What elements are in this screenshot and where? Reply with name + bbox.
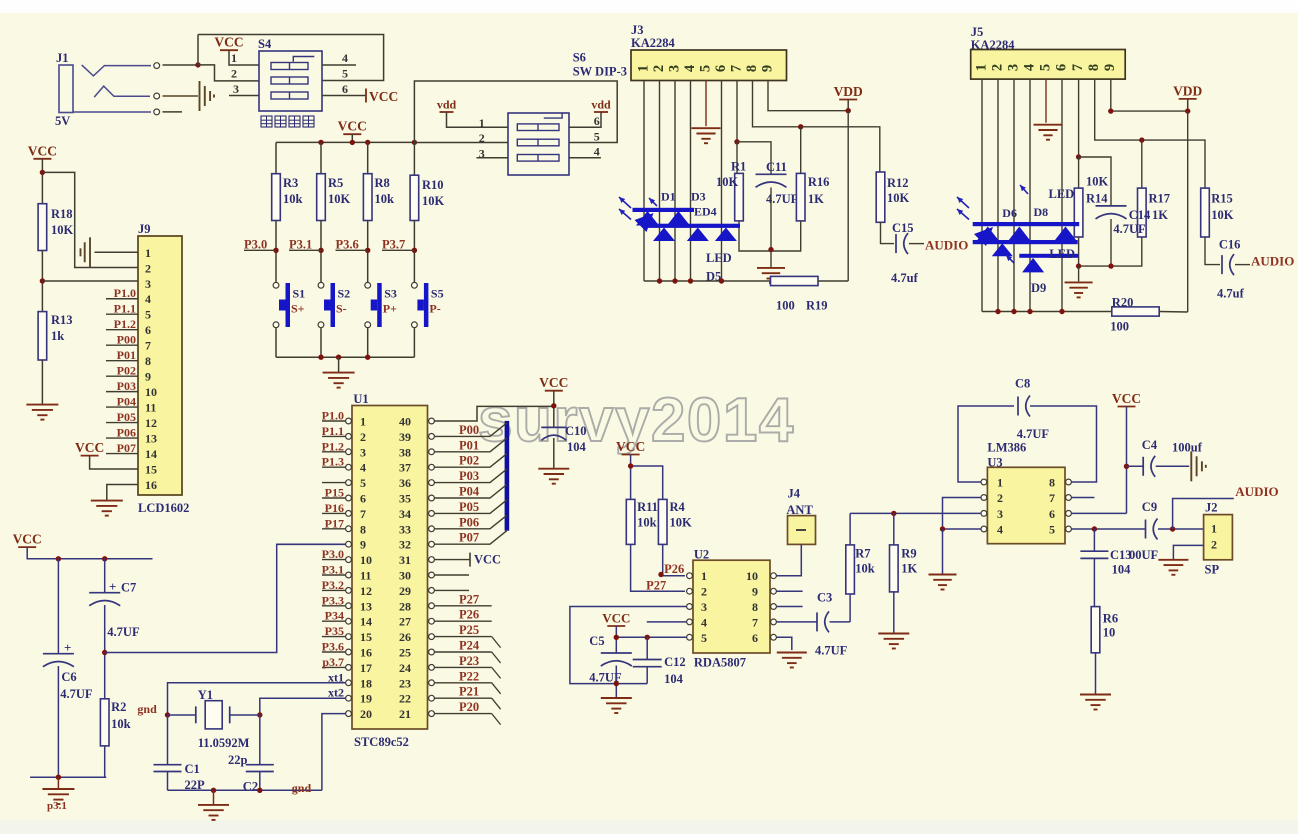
node lbus1 bbox=[657, 278, 662, 283]
svg-text:8: 8 bbox=[744, 65, 760, 72]
svg-text:1: 1 bbox=[635, 65, 651, 72]
connector J2 label bbox=[1205, 501, 1218, 515]
svg-text:P1.2: P1.2 bbox=[322, 439, 344, 453]
wire S4 pin6 to VCC bbox=[322, 95, 366, 97]
connector J2 body bbox=[1204, 515, 1233, 560]
wire buttons ground bus bbox=[276, 356, 414, 358]
node pin8 junction bbox=[798, 124, 803, 129]
wire S6 pin3 bbox=[477, 157, 509, 159]
node P26 bbox=[658, 572, 663, 577]
svg-text:10K: 10K bbox=[1211, 208, 1234, 222]
svg-text:100: 100 bbox=[776, 299, 795, 313]
wire U1 pin20 to gnd net bbox=[322, 714, 346, 791]
node J5 R17 junction bbox=[1139, 137, 1144, 142]
S4 pin6 number bbox=[342, 82, 348, 96]
node pin2 pin4 bbox=[940, 526, 945, 531]
svg-text:VCC: VCC bbox=[75, 440, 104, 455]
C3 label bbox=[815, 591, 848, 658]
wire U2 pin4 stub bbox=[647, 621, 687, 623]
diode row2 a bbox=[653, 228, 675, 242]
capacitor C13 bbox=[1080, 551, 1108, 558]
net label P3.1 bbox=[289, 238, 321, 252]
svg-text:P00: P00 bbox=[117, 333, 136, 347]
svg-text:J5: J5 bbox=[971, 25, 984, 39]
ground below C11 bbox=[757, 268, 785, 283]
ground J5 pin5 bbox=[1034, 125, 1063, 140]
svg-text:P26: P26 bbox=[664, 562, 684, 576]
svg-text:4: 4 bbox=[594, 145, 600, 159]
wire xtal gnd stem bbox=[213, 790, 215, 804]
node bus VCC bbox=[350, 140, 355, 145]
svg-text:VCC: VCC bbox=[338, 119, 367, 134]
capacitor C14 bbox=[1096, 206, 1127, 219]
node C13 top bbox=[1092, 526, 1097, 531]
svg-text:39: 39 bbox=[399, 430, 411, 444]
node bus R5 bbox=[318, 140, 323, 145]
svg-text:S4: S4 bbox=[258, 37, 272, 51]
wire S6 pin2 bbox=[414, 142, 508, 144]
resistor R14 bbox=[1074, 188, 1083, 237]
svg-text:10k: 10k bbox=[283, 192, 303, 206]
capacitor C6 bbox=[43, 654, 74, 667]
S6 bar2 bbox=[517, 139, 559, 146]
wire C6 drop bbox=[57, 559, 59, 654]
svg-text:15: 15 bbox=[145, 463, 157, 477]
wire R16 top bbox=[800, 127, 802, 174]
svg-text:P23: P23 bbox=[459, 654, 479, 668]
C15 label bbox=[891, 221, 919, 285]
wire C4 lead bbox=[1127, 465, 1144, 467]
svg-text:P3.1: P3.1 bbox=[322, 563, 344, 577]
svg-text:4: 4 bbox=[1021, 64, 1037, 71]
wire R7 top bbox=[849, 513, 851, 545]
label LED r3 bbox=[1049, 247, 1075, 261]
svg-text:100uf: 100uf bbox=[1172, 441, 1203, 455]
power VCC right top bbox=[1112, 391, 1141, 407]
wire xt2 net bbox=[260, 698, 345, 715]
svg-text:C15: C15 bbox=[892, 221, 914, 235]
capacitor C8 label bbox=[1015, 377, 1030, 391]
diode row2 J5 bbox=[992, 243, 1013, 256]
resistor R5 bbox=[317, 174, 326, 221]
svg-text:P07: P07 bbox=[117, 441, 136, 455]
svg-text:P02: P02 bbox=[117, 364, 136, 378]
bus bar blue bbox=[505, 421, 510, 531]
wire U2 pin9 stub bbox=[777, 590, 803, 592]
power vdd left of S6 bbox=[437, 98, 457, 113]
J1 ring contact bbox=[94, 86, 150, 97]
resistor R17 bbox=[1138, 188, 1147, 237]
net label AUDIO left bbox=[925, 238, 968, 253]
svg-text:18: 18 bbox=[360, 676, 372, 690]
power VCC at J9 pin15 bbox=[75, 440, 104, 456]
wire J5 pin9 to VDD bbox=[1111, 79, 1188, 111]
svg-text:5: 5 bbox=[594, 129, 600, 143]
svg-text:7: 7 bbox=[1049, 491, 1055, 505]
power vdd right of S6 bbox=[591, 98, 611, 113]
svg-text:P04: P04 bbox=[459, 485, 480, 499]
svg-text:104: 104 bbox=[1112, 563, 1132, 577]
wire junction to S4 pin2 bbox=[198, 65, 259, 81]
svg-text:P15: P15 bbox=[325, 486, 344, 500]
svg-text:p3.7: p3.7 bbox=[322, 655, 344, 669]
R4 label bbox=[670, 500, 693, 530]
svg-text:C7: C7 bbox=[121, 581, 136, 595]
svg-text:1k: 1k bbox=[51, 329, 64, 343]
resistor R1 bbox=[735, 173, 744, 221]
svg-text:13: 13 bbox=[145, 432, 157, 446]
svg-text:3: 3 bbox=[233, 82, 239, 96]
ground below R14 bbox=[1065, 282, 1093, 297]
svg-text:P1.3: P1.3 bbox=[322, 455, 344, 469]
svg-text:6: 6 bbox=[342, 82, 348, 96]
svg-text:LED: LED bbox=[1049, 247, 1075, 261]
wire J5 pin3 drop bbox=[1013, 79, 1015, 311]
svg-text:6: 6 bbox=[1049, 507, 1055, 521]
svg-text:D1: D1 bbox=[661, 190, 676, 204]
ground J3 pin5 bbox=[692, 128, 721, 143]
svg-text:27: 27 bbox=[399, 615, 411, 629]
svg-text:AUDIO: AUDIO bbox=[1251, 254, 1294, 269]
C14 label bbox=[1113, 208, 1168, 236]
Y1 value bbox=[198, 736, 250, 750]
node lbus4 bbox=[719, 278, 724, 283]
svg-text:6: 6 bbox=[752, 631, 758, 645]
power VCC above C5 bbox=[602, 611, 630, 627]
IC J5 body bbox=[971, 50, 1125, 80]
connector J1 body bbox=[59, 65, 73, 113]
svg-text:R16: R16 bbox=[808, 175, 830, 189]
C6 label bbox=[60, 670, 93, 701]
IC U1 body bbox=[352, 406, 428, 730]
capacitor C12 bbox=[633, 660, 662, 667]
C2 value 22p bbox=[228, 753, 248, 767]
wire C6 bottom bbox=[57, 666, 59, 777]
power VCC bar at S4 pin6 bbox=[366, 89, 398, 105]
R11 label bbox=[637, 500, 658, 530]
R14 label bbox=[1086, 175, 1109, 206]
label D8 bbox=[1034, 205, 1049, 219]
svg-text:P27: P27 bbox=[459, 592, 479, 606]
diode D8 arrow bbox=[1020, 185, 1028, 194]
wire R8 bottom bbox=[367, 221, 369, 283]
C9 label bbox=[1142, 500, 1157, 514]
C5 label bbox=[589, 634, 622, 685]
wire U3 pin5 net bbox=[1072, 528, 1146, 530]
svg-text:2: 2 bbox=[145, 261, 151, 275]
R5 label bbox=[328, 176, 351, 206]
node C5 top bbox=[614, 635, 619, 640]
switch S6 body bbox=[508, 113, 569, 175]
wire R14 top bbox=[1078, 157, 1080, 188]
node lbus3 bbox=[688, 278, 693, 283]
wire J1 pin3 stub bbox=[163, 111, 183, 113]
resistor R10 bbox=[410, 175, 419, 220]
U1 right pin circles bbox=[429, 418, 435, 716]
wire VCC to R18 bbox=[41, 159, 43, 204]
capacitor C15 bbox=[896, 233, 908, 254]
wires P00-P07 to bus bbox=[434, 423, 506, 544]
wire J1 tip to junction bbox=[163, 64, 199, 66]
wire J9 pin16 to ground bbox=[107, 485, 138, 501]
node C11 ground bbox=[768, 247, 773, 252]
svg-text:31: 31 bbox=[399, 553, 411, 567]
U1 left pin circles bbox=[346, 418, 352, 716]
label D3 bbox=[691, 190, 706, 204]
wire Y1 left lead bbox=[168, 714, 196, 716]
svg-text:22p: 22p bbox=[228, 753, 248, 767]
diode row2 b bbox=[687, 228, 709, 242]
R1 label bbox=[716, 160, 746, 190]
S6 bar3 bbox=[517, 155, 559, 162]
S4 bar2 bbox=[271, 77, 308, 84]
wire R13 to ground bbox=[41, 360, 43, 404]
svg-text:J4: J4 bbox=[788, 487, 801, 501]
svg-text:R13: R13 bbox=[51, 313, 73, 327]
R7 label bbox=[855, 547, 875, 576]
S6 latch mark bbox=[544, 114, 562, 119]
svg-text:VCC: VCC bbox=[602, 611, 630, 626]
svg-text:R7: R7 bbox=[855, 547, 870, 561]
LED D4 bar bbox=[647, 224, 741, 228]
svg-text:104: 104 bbox=[664, 672, 684, 686]
capacitor C16 bbox=[1222, 254, 1234, 275]
node C7 R2 bbox=[102, 650, 107, 655]
wire R17 top bbox=[1141, 140, 1143, 188]
svg-text:P3.6: P3.6 bbox=[322, 640, 344, 654]
svg-text:33: 33 bbox=[399, 522, 411, 536]
wire VDD right stem bbox=[1187, 99, 1189, 111]
svg-text:9: 9 bbox=[759, 65, 775, 72]
J3 rotated pin numbers bbox=[635, 65, 775, 72]
svg-text:4.7UF: 4.7UF bbox=[60, 687, 93, 701]
svg-text:P25: P25 bbox=[459, 623, 479, 637]
J3 labels bbox=[631, 23, 676, 50]
power VDD left bbox=[834, 84, 863, 100]
svg-text:6: 6 bbox=[360, 492, 366, 506]
label gnd right bbox=[292, 781, 312, 795]
ground below C5 bbox=[601, 698, 632, 713]
label gnd left bbox=[137, 702, 157, 716]
wire R18 top to J9 pin2 bbox=[42, 172, 138, 267]
svg-text:2: 2 bbox=[1211, 538, 1217, 552]
LED D1 bar bbox=[633, 208, 695, 212]
node Y1 right bbox=[257, 712, 262, 717]
svg-text:7: 7 bbox=[145, 339, 151, 353]
J1 pin1 circle bbox=[154, 63, 160, 69]
R9 label bbox=[901, 547, 917, 576]
diode D9 bbox=[1022, 258, 1044, 273]
wire VCC stem bbox=[351, 134, 353, 142]
node C7 top bbox=[102, 556, 107, 561]
svg-text:1: 1 bbox=[145, 246, 151, 260]
C1 label bbox=[185, 762, 206, 792]
IC J3 body bbox=[631, 50, 787, 81]
node J5 pin7 junction bbox=[1076, 154, 1081, 159]
svg-text:VDD: VDD bbox=[1173, 83, 1202, 98]
svg-text:LCD1602: LCD1602 bbox=[138, 501, 189, 515]
ground below U3 pin4 bbox=[929, 575, 957, 590]
svg-text:20: 20 bbox=[360, 707, 372, 721]
svg-text:1: 1 bbox=[997, 476, 1003, 490]
U1 left pin numbers bbox=[360, 415, 372, 722]
svg-text:2: 2 bbox=[989, 64, 1005, 71]
node C12 top bbox=[645, 635, 650, 640]
svg-text:STC89c52: STC89c52 bbox=[354, 735, 409, 749]
svg-text:P01: P01 bbox=[459, 438, 479, 452]
svg-text:VCC: VCC bbox=[474, 553, 501, 567]
svg-text:U1: U1 bbox=[353, 392, 368, 406]
resistor R16 bbox=[796, 173, 805, 221]
svg-text:J9: J9 bbox=[138, 222, 151, 236]
J1 label 5V bbox=[55, 114, 70, 128]
svg-text:28: 28 bbox=[399, 599, 411, 613]
wire S5 bottom bbox=[413, 328, 415, 358]
svg-text:P17: P17 bbox=[325, 516, 344, 530]
U1 pin30 stub bbox=[434, 574, 469, 576]
svg-text:P22: P22 bbox=[459, 669, 479, 683]
svg-text:C14: C14 bbox=[1129, 208, 1151, 222]
svg-text:+: + bbox=[64, 640, 71, 655]
wire C12 col bbox=[646, 637, 648, 683]
C8 value bbox=[1017, 427, 1050, 441]
wire VCC bus bbox=[276, 141, 414, 143]
wire VCC right col bbox=[1126, 407, 1128, 514]
svg-text:P1.2: P1.2 bbox=[114, 317, 136, 331]
wire R10 top bbox=[413, 142, 415, 175]
resistor R20 bbox=[1112, 307, 1159, 316]
wire J3 pin6 drop bbox=[721, 81, 723, 282]
resistor R9 bbox=[890, 545, 899, 592]
wire junction up to top bbox=[197, 35, 199, 66]
R13 label bbox=[51, 313, 73, 343]
label D5 bbox=[706, 270, 721, 284]
svg-text:C4: C4 bbox=[1142, 438, 1158, 452]
S4 bar3 bbox=[271, 92, 308, 99]
svg-text:1: 1 bbox=[231, 51, 237, 65]
node jack junction bbox=[195, 62, 200, 67]
svg-text:C16: C16 bbox=[1219, 238, 1241, 252]
wire R11 to U2 pin2 bbox=[631, 544, 685, 591]
svg-text:6: 6 bbox=[594, 114, 600, 128]
svg-text:S6: S6 bbox=[573, 51, 586, 65]
svg-text:P1.1: P1.1 bbox=[114, 302, 136, 316]
ground rotated at J9 pin1 bbox=[81, 237, 91, 267]
wire R8 top bbox=[367, 142, 369, 173]
svg-text:R5: R5 bbox=[328, 176, 343, 190]
wire S3 bottom bbox=[367, 328, 369, 358]
wire C9 to J2 bbox=[1158, 528, 1204, 530]
svg-text:P06: P06 bbox=[117, 426, 136, 440]
ground below R13 bbox=[26, 405, 58, 420]
svg-text:10k: 10k bbox=[855, 562, 875, 576]
svg-text:1: 1 bbox=[479, 116, 485, 130]
svg-text:7: 7 bbox=[752, 615, 758, 629]
wire VDD rail down bbox=[847, 111, 849, 281]
wire VDD right rail down bbox=[1187, 111, 1189, 312]
wire J3 pin7 drop bbox=[736, 81, 738, 142]
wire C8 loop bbox=[958, 406, 1097, 482]
svg-text:S5: S5 bbox=[431, 287, 444, 301]
svg-text:4.7UF: 4.7UF bbox=[107, 625, 140, 639]
U3 pins bbox=[981, 476, 1071, 537]
wire R5 top bbox=[320, 142, 322, 173]
power VCC at S4 pin1 bbox=[214, 35, 243, 51]
IC U2 body bbox=[693, 560, 770, 653]
IC U3 body bbox=[987, 467, 1065, 543]
svg-text:29: 29 bbox=[399, 584, 411, 598]
svg-text:8: 8 bbox=[145, 354, 151, 368]
diode rotated left row1 J5 bbox=[974, 227, 993, 246]
wire VCC corner bus bbox=[27, 547, 152, 559]
wire J3 pin8 drop bbox=[753, 81, 880, 173]
LED arrows left bbox=[619, 197, 631, 220]
svg-text:9: 9 bbox=[145, 370, 151, 384]
power VDD right bbox=[1173, 83, 1202, 99]
svg-text:R11: R11 bbox=[637, 500, 658, 514]
resistor R11 bbox=[626, 499, 635, 544]
C16 label bbox=[1217, 238, 1245, 301]
pushbutton S3 bbox=[365, 282, 397, 327]
C13 label bbox=[1110, 548, 1159, 577]
svg-text:5: 5 bbox=[342, 67, 348, 81]
node C5 gnd bbox=[614, 681, 619, 686]
C10 label bbox=[565, 424, 587, 454]
svg-text:2: 2 bbox=[997, 491, 1003, 505]
svg-text:3: 3 bbox=[701, 600, 707, 614]
capacitor C10 bbox=[541, 427, 566, 440]
svg-text:R10: R10 bbox=[422, 178, 444, 192]
capacitor C8 bbox=[1018, 396, 1030, 417]
svg-text:R9: R9 bbox=[901, 547, 916, 561]
connector J9 body bbox=[138, 236, 182, 495]
node P3.6 net bbox=[365, 248, 370, 253]
node R9 top bbox=[891, 511, 896, 516]
svg-text:9: 9 bbox=[752, 585, 758, 599]
svg-text:4.7UF: 4.7UF bbox=[1113, 222, 1146, 236]
svg-text:8: 8 bbox=[1086, 64, 1102, 71]
wire S6 pin6 to vdd bbox=[569, 112, 601, 127]
svg-text:S1: S1 bbox=[293, 287, 306, 301]
svg-text:R8: R8 bbox=[375, 176, 390, 190]
node Y1 left bbox=[165, 712, 170, 717]
J5 labels bbox=[971, 25, 1016, 52]
diode D1 bbox=[636, 211, 659, 226]
svg-text:4.7uf: 4.7uf bbox=[1217, 287, 1245, 301]
svg-text:J1: J1 bbox=[56, 51, 69, 65]
label D9 bbox=[1031, 281, 1046, 295]
R12 label bbox=[887, 176, 910, 205]
svg-text:25: 25 bbox=[399, 646, 411, 660]
wire R3 bottom bbox=[275, 221, 277, 283]
wire R6 to ground bbox=[1095, 653, 1097, 694]
svg-text:P04: P04 bbox=[117, 395, 136, 409]
svg-text:3: 3 bbox=[360, 445, 366, 459]
svg-text:R20: R20 bbox=[1112, 296, 1134, 310]
wire divider to J9 pin3 bbox=[42, 280, 138, 282]
svg-text:AUDIO: AUDIO bbox=[1235, 484, 1278, 499]
wire gnd stem bl bbox=[57, 777, 59, 788]
svg-text:30: 30 bbox=[399, 569, 411, 583]
power VCC above R11 bbox=[616, 439, 645, 455]
wire R18 to R13 bbox=[41, 251, 43, 312]
pushbutton S2 bbox=[318, 282, 350, 327]
svg-text:C6: C6 bbox=[61, 670, 76, 684]
J2 name SP bbox=[1205, 563, 1220, 577]
svg-text:4.7UF: 4.7UF bbox=[815, 644, 848, 658]
svg-text:VCC: VCC bbox=[539, 375, 568, 390]
svg-text:00UF: 00UF bbox=[1129, 548, 1159, 562]
